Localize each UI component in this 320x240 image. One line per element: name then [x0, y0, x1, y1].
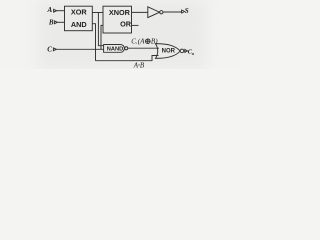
svg-text:A·B: A·B [133, 61, 145, 69]
wire C to NAND [56, 48, 103, 50]
svg-text:B): B) [151, 38, 158, 46]
wire B to XOR/AND box [57, 21, 64, 23]
node A [47, 6, 57, 14]
gate NOR U5 [156, 44, 184, 59]
wire NOR to Co [183, 50, 185, 52]
svg-text:A: A [47, 6, 53, 14]
wire AND output down to bottom rail [92, 24, 95, 61]
wire OR output stub [132, 24, 139, 26]
wire bottom rail A.B to NOR gate [96, 56, 159, 61]
inverter U3 [148, 7, 163, 18]
background [0, 0, 240, 69]
svg-text:XOR: XOR [71, 8, 88, 17]
svg-text:AND: AND [71, 20, 87, 29]
gate NAND U4 [104, 45, 128, 53]
node S [182, 7, 189, 15]
svg-text:NAND: NAND [107, 47, 123, 53]
wire XOR output to XNOR box [92, 12, 103, 14]
wire inverter to S [163, 11, 182, 13]
wire XNOR output to inverter [132, 11, 148, 13]
svg-text:XNOR: XNOR [109, 8, 131, 17]
node Co [185, 48, 195, 56]
wire A to XOR/AND box [57, 10, 65, 12]
svg-text:C.(A: C.(A [131, 38, 145, 46]
gate box U1 XOR/AND [65, 6, 93, 31]
gate box U2 XNOR/OR [103, 6, 132, 33]
node B [48, 18, 58, 26]
svg-text:OR: OR [120, 19, 132, 28]
wire branch A xor B down to NAND input [98, 13, 103, 46]
svg-text:C: C [47, 45, 52, 53]
node C [47, 45, 56, 53]
svg-text:B: B [48, 18, 54, 26]
svg-text:NOR: NOR [162, 49, 176, 55]
wire NAND output to NOR gate [128, 47, 159, 49]
svg-text:S: S [185, 7, 189, 15]
wire branch C up to OR input of box U2 [101, 25, 103, 49]
